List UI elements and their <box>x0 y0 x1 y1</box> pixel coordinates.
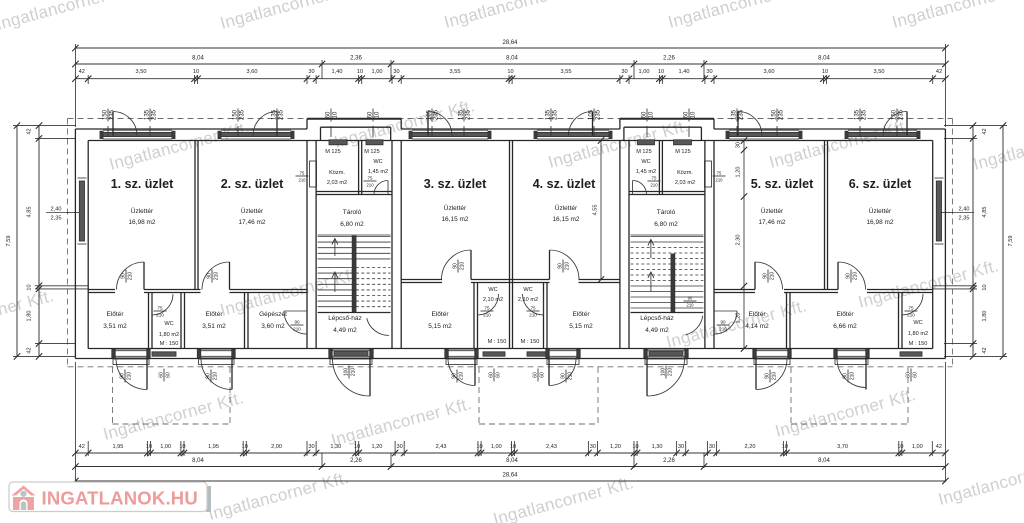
svg-text:10: 10 <box>897 444 903 450</box>
svg-text:210: 210 <box>460 262 466 271</box>
svg-text:30: 30 <box>308 444 314 450</box>
svg-text:150: 150 <box>891 109 897 120</box>
wall eloter1|wc1 <box>148 293 150 349</box>
svg-text:210: 210 <box>156 313 164 318</box>
svg-text:2,20: 2,20 <box>745 444 756 450</box>
svg-text:2,03 m2: 2,03 m2 <box>675 180 695 186</box>
svg-text:1,00: 1,00 <box>912 444 923 450</box>
svg-text:1,80 m2: 1,80 m2 <box>159 332 179 338</box>
svg-text:90: 90 <box>120 273 126 279</box>
left dimension witness lines <box>13 125 76 127</box>
interior vertical dim room5 <box>743 141 745 349</box>
svg-text:135: 135 <box>271 109 277 120</box>
svg-text:90: 90 <box>720 319 726 324</box>
svg-text:2,26: 2,26 <box>663 56 675 62</box>
wall eloter2|gepeszet <box>244 293 246 349</box>
svg-text:6,80 m2: 6,80 m2 <box>340 221 364 228</box>
staircase 1 treads <box>318 236 391 238</box>
svg-text:60: 60 <box>641 111 647 118</box>
svg-text:M 125: M 125 <box>636 149 652 155</box>
svg-text:17,46 m2: 17,46 m2 <box>758 219 785 226</box>
stair2 wc/kozm rooms <box>629 194 705 196</box>
svg-text:16,98 m2: 16,98 m2 <box>866 219 893 226</box>
door room1 to back (90/210) <box>143 262 145 290</box>
svg-text:M : 150: M : 150 <box>160 341 179 347</box>
bottom window wc1 (60/60) <box>152 352 176 356</box>
svg-text:30: 30 <box>396 444 402 450</box>
svg-text:105: 105 <box>426 109 432 120</box>
svg-text:30: 30 <box>709 444 715 450</box>
svg-text:3,60 m2: 3,60 m2 <box>261 323 285 330</box>
door wc1 (75/210) <box>152 294 173 315</box>
svg-text:10: 10 <box>507 69 513 75</box>
svg-text:4,85: 4,85 <box>982 207 988 218</box>
svg-text:235: 235 <box>466 109 472 120</box>
door gepeszet to stair1 (90/210) <box>284 310 307 312</box>
svg-text:3,55: 3,55 <box>450 69 461 75</box>
svg-text:3,55: 3,55 <box>561 69 572 75</box>
svg-text:8,04: 8,04 <box>506 56 518 62</box>
right dimension line 7,59 <box>1002 126 1004 357</box>
svg-text:7,59: 7,59 <box>6 236 12 247</box>
svg-text:1,20: 1,20 <box>610 444 621 450</box>
roof eaves dashed outline <box>68 118 953 120</box>
wall wc1|eloter2 <box>180 293 182 349</box>
svg-text:7,59: 7,59 <box>1008 236 1014 247</box>
right wall lines <box>944 129 946 359</box>
svg-text:6,66 m2: 6,66 m2 <box>833 323 857 330</box>
svg-text:10: 10 <box>691 111 697 118</box>
svg-text:75: 75 <box>652 175 657 180</box>
svg-text:100: 100 <box>343 368 349 377</box>
svg-text:1,00: 1,00 <box>372 69 383 75</box>
svg-text:90: 90 <box>845 273 851 279</box>
top facade windows <box>103 132 172 136</box>
svg-text:210: 210 <box>668 368 674 377</box>
svg-text:210: 210 <box>459 372 465 381</box>
svg-text:1,80 m2: 1,80 m2 <box>908 331 928 337</box>
left wall window <box>79 181 84 241</box>
svg-text:210: 210 <box>650 183 658 188</box>
svg-text:235: 235 <box>596 109 602 120</box>
svg-text:10: 10 <box>333 111 339 118</box>
logo house icon <box>12 486 36 511</box>
svg-text:3,51 m2: 3,51 m2 <box>103 323 127 330</box>
svg-text:Közm.: Közm. <box>329 170 345 176</box>
facade door arc room 5 <box>737 112 739 136</box>
door inside stair1 hall <box>366 312 389 314</box>
svg-text:210: 210 <box>770 272 776 281</box>
svg-text:1,45 m2: 1,45 m2 <box>636 169 656 175</box>
svg-text:Üzlettér: Üzlettér <box>869 207 892 215</box>
wall wc4|eloter4 <box>543 283 545 349</box>
svg-text:Előtér: Előtér <box>837 311 855 318</box>
svg-text:235: 235 <box>152 109 158 120</box>
svg-text:2,26: 2,26 <box>663 458 675 464</box>
svg-text:Előtér: Előtér <box>206 311 224 318</box>
svg-text:1,20: 1,20 <box>736 167 742 178</box>
svg-text:10: 10 <box>27 284 33 290</box>
svg-text:75: 75 <box>530 305 536 310</box>
svg-text:210: 210 <box>214 272 220 281</box>
svg-text:10: 10 <box>354 444 360 450</box>
svg-text:Üzlettér: Üzlettér <box>761 207 784 215</box>
svg-text:42: 42 <box>982 128 988 134</box>
svg-text:5,15 m2: 5,15 m2 <box>569 323 593 330</box>
facade door arc room 4 <box>592 112 594 136</box>
svg-text:210: 210 <box>687 303 695 308</box>
svg-text:4,14 m2: 4,14 m2 <box>745 323 769 330</box>
svg-text:135: 135 <box>144 109 150 120</box>
svg-text:WC: WC <box>488 287 497 293</box>
svg-text:10: 10 <box>242 444 248 450</box>
facade door arc room 6 <box>906 112 908 136</box>
terrace dashed outline right <box>790 367 792 424</box>
svg-text:10: 10 <box>982 284 988 290</box>
svg-text:210: 210 <box>853 272 859 281</box>
svg-text:M : 150: M : 150 <box>521 339 540 345</box>
svg-text:235: 235 <box>279 109 285 120</box>
top wall outer line <box>75 128 307 130</box>
svg-text:10: 10 <box>193 69 199 75</box>
right dimension chain 42/4,85/10/1,80/42 <box>972 126 974 357</box>
svg-text:10: 10 <box>357 69 363 75</box>
svg-text:1,30: 1,30 <box>330 444 341 450</box>
svg-text:135: 135 <box>731 109 737 120</box>
svg-text:6. sz. üzlet: 6. sz. üzlet <box>849 177 912 191</box>
svg-text:42: 42 <box>936 444 942 450</box>
svg-text:105: 105 <box>588 109 594 120</box>
svg-text:210: 210 <box>127 372 133 381</box>
svg-text:75: 75 <box>717 170 722 175</box>
facade door arc room 3 <box>427 112 429 136</box>
back partition rooms 5-6 <box>714 289 755 291</box>
svg-text:235: 235 <box>110 109 116 120</box>
svg-text:3,51 m2: 3,51 m2 <box>202 323 226 330</box>
bottom dimension row 2 <box>75 466 945 468</box>
left dimension chain 42/4,85/10/1,80/42 <box>38 126 40 357</box>
svg-text:42: 42 <box>79 69 85 75</box>
svg-text:10: 10 <box>510 444 516 450</box>
door wc4 (75/210) <box>523 294 544 315</box>
svg-text:10: 10 <box>782 444 788 450</box>
svg-text:1,95: 1,95 <box>208 444 219 450</box>
bottom wall outer line <box>75 358 945 360</box>
svg-text:1. sz. üzlet: 1. sz. üzlet <box>111 177 174 191</box>
svg-text:210: 210 <box>128 272 134 281</box>
left dimension line 7,59 <box>16 126 18 357</box>
svg-text:16,15 m2: 16,15 m2 <box>552 216 579 223</box>
svg-text:30: 30 <box>736 142 742 148</box>
svg-text:90: 90 <box>205 373 211 379</box>
svg-text:10: 10 <box>649 111 655 118</box>
svg-text:90: 90 <box>557 263 563 269</box>
bottom window wc4 (60/60) <box>527 352 549 356</box>
svg-text:235: 235 <box>862 109 868 120</box>
svg-text:30: 30 <box>308 69 314 75</box>
svg-text:210: 210 <box>366 183 374 188</box>
svg-text:1,00: 1,00 <box>160 444 171 450</box>
bottom dimension witness lines <box>74 362 76 482</box>
svg-text:1,00: 1,00 <box>639 69 650 75</box>
stair2 shaft niche <box>705 161 712 187</box>
right dimension witness lines <box>944 125 1007 127</box>
svg-text:1,40: 1,40 <box>332 69 343 75</box>
svg-text:210: 210 <box>299 178 307 183</box>
svg-text:2,43: 2,43 <box>546 444 557 450</box>
door room2 to back (90/210) <box>229 262 231 290</box>
svg-text:1,80: 1,80 <box>982 311 988 322</box>
svg-text:M : 150: M : 150 <box>488 339 507 345</box>
svg-text:2,35: 2,35 <box>959 216 970 222</box>
svg-text:Tároló: Tároló <box>657 209 676 216</box>
facade door arc room 1 <box>112 112 114 136</box>
svg-text:210: 210 <box>716 178 724 183</box>
svg-text:WC: WC <box>913 320 922 326</box>
staircase 2 treads <box>631 234 704 236</box>
svg-text:3,60: 3,60 <box>764 69 775 75</box>
svg-text:235: 235 <box>899 109 905 120</box>
svg-text:WC: WC <box>164 321 173 327</box>
svg-text:8,04: 8,04 <box>192 458 204 464</box>
svg-text:210: 210 <box>293 327 301 332</box>
terrace dashed outline center <box>478 367 480 424</box>
wall eloter3|wc3 <box>473 283 475 349</box>
svg-text:60: 60 <box>158 372 164 378</box>
partition rooms 1|2 <box>194 141 196 290</box>
svg-text:5,15 m2: 5,15 m2 <box>428 323 452 330</box>
svg-text:30: 30 <box>678 444 684 450</box>
bottom door room2 <box>201 349 233 358</box>
svg-text:Közm.: Közm. <box>677 170 693 176</box>
svg-text:60: 60 <box>166 372 172 378</box>
svg-text:1,00: 1,00 <box>491 444 502 450</box>
svg-text:3,50: 3,50 <box>874 69 885 75</box>
svg-text:Gépészet: Gépészet <box>259 311 287 318</box>
facade window dimension labels <box>102 109 115 122</box>
bottom dimension row 1 (28,64) <box>75 480 945 482</box>
svg-text:75: 75 <box>908 305 914 310</box>
door room6 to back (90/210) <box>837 262 839 290</box>
svg-text:10: 10 <box>632 444 638 450</box>
svg-text:1,20: 1,20 <box>371 444 382 450</box>
svg-text:3,60: 3,60 <box>247 69 258 75</box>
bottom dimension row 3 (detail chain) <box>75 452 945 454</box>
svg-text:10: 10 <box>822 69 828 75</box>
svg-text:1,45 m2: 1,45 m2 <box>368 169 388 175</box>
svg-text:2,30: 2,30 <box>736 235 742 246</box>
svg-text:Előtér: Előtér <box>107 311 125 318</box>
svg-text:90: 90 <box>688 295 693 300</box>
svg-text:17,46 m2: 17,46 m2 <box>238 219 265 226</box>
svg-text:210: 210 <box>719 327 727 332</box>
svg-text:210: 210 <box>213 372 219 381</box>
door wc6 (75/210) <box>902 294 923 315</box>
svg-text:42: 42 <box>982 347 988 353</box>
facade door arc room 2 <box>276 112 278 136</box>
svg-text:1,95: 1,95 <box>112 444 123 450</box>
wall back6|wc6 <box>898 293 900 349</box>
svg-text:10: 10 <box>375 111 381 118</box>
bottom window wc6 (60/60) <box>900 352 922 356</box>
svg-text:30: 30 <box>590 444 596 450</box>
back partition rooms 3-4 <box>401 279 442 281</box>
svg-text:135: 135 <box>545 109 551 120</box>
svg-text:16,15 m2: 16,15 m2 <box>441 216 468 223</box>
svg-text:8,04: 8,04 <box>192 56 204 62</box>
svg-text:235: 235 <box>434 109 440 120</box>
svg-text:90: 90 <box>206 273 212 279</box>
stair core vent windows <box>329 140 347 145</box>
svg-text:WC: WC <box>641 159 650 165</box>
terrace dashed outline left <box>112 367 114 424</box>
top dimension row 3 (detail chain) <box>75 78 945 80</box>
svg-text:1,30: 1,30 <box>652 444 663 450</box>
svg-text:135: 135 <box>854 109 860 120</box>
svg-text:2,10 m2: 2,10 m2 <box>518 297 538 303</box>
svg-text:2,43: 2,43 <box>436 444 447 450</box>
svg-text:2,35: 2,35 <box>51 216 62 222</box>
partition rooms 3|4 <box>509 141 511 349</box>
ingatlanok.hu logo box <box>206 486 211 512</box>
svg-text:28,64: 28,64 <box>502 473 518 479</box>
svg-text:3. sz. üzlet: 3. sz. üzlet <box>424 177 487 191</box>
svg-text:10: 10 <box>476 444 482 450</box>
top dimension row 1 (28,64) <box>75 47 945 49</box>
svg-text:90: 90 <box>451 373 457 379</box>
door room5 to back (90/210) <box>754 262 756 290</box>
svg-text:60: 60 <box>532 372 538 378</box>
svg-text:60: 60 <box>905 372 911 378</box>
svg-text:210: 210 <box>351 368 357 377</box>
door wc3 (75/210) <box>478 294 499 315</box>
svg-text:235: 235 <box>553 109 559 120</box>
svg-text:6,80 m2: 6,80 m2 <box>654 221 678 228</box>
svg-text:60: 60 <box>325 111 331 118</box>
svg-text:2. sz. üzlet: 2. sz. üzlet <box>221 177 284 191</box>
top wall inner line <box>88 140 933 142</box>
svg-text:75: 75 <box>300 170 305 175</box>
bottom door room4 <box>549 349 577 358</box>
svg-text:2,40: 2,40 <box>51 207 62 213</box>
svg-text:INGATLANOK.HU: INGATLANOK.HU <box>42 488 198 509</box>
door inside stair2 hall <box>680 312 703 314</box>
svg-text:150: 150 <box>771 109 777 120</box>
svg-text:90: 90 <box>119 373 125 379</box>
svg-text:4,55: 4,55 <box>593 205 599 216</box>
svg-text:1,40: 1,40 <box>679 69 690 75</box>
svg-text:60: 60 <box>540 372 546 378</box>
svg-text:2,26: 2,26 <box>350 458 362 464</box>
svg-text:210: 210 <box>483 313 491 318</box>
svg-text:42: 42 <box>79 444 85 450</box>
svg-text:90: 90 <box>762 273 768 279</box>
svg-text:100: 100 <box>660 368 666 377</box>
svg-text:4,85: 4,85 <box>27 207 33 218</box>
bottom door room6 <box>837 349 866 358</box>
interior vertical dim room4 (4,55) <box>600 141 602 280</box>
svg-text:WC: WC <box>373 159 382 165</box>
svg-text:1,80: 1,80 <box>27 311 33 322</box>
svg-text:Üzlettér: Üzlettér <box>555 204 578 212</box>
svg-text:3,70: 3,70 <box>837 444 848 450</box>
svg-text:8,04: 8,04 <box>818 56 830 62</box>
svg-text:8,04: 8,04 <box>506 458 518 464</box>
svg-text:210: 210 <box>565 262 571 271</box>
back partition rooms 1-2 <box>88 289 115 291</box>
svg-text:Üzlettér: Üzlettér <box>241 207 264 215</box>
bottom door room5 <box>756 349 788 358</box>
svg-text:M 125: M 125 <box>364 149 380 155</box>
svg-text:2,03 m2: 2,03 m2 <box>327 180 347 186</box>
svg-text:WC: WC <box>523 287 532 293</box>
svg-text:Lépcső-ház: Lépcső-ház <box>640 315 674 322</box>
svg-text:28,64: 28,64 <box>502 40 518 46</box>
svg-text:210: 210 <box>529 313 537 318</box>
stair core 2 protruding front wall <box>620 118 714 120</box>
svg-text:42: 42 <box>936 69 942 75</box>
svg-text:4,49 m2: 4,49 m2 <box>333 327 357 334</box>
left wall lines <box>74 129 76 359</box>
svg-text:90: 90 <box>764 373 770 379</box>
stair2 entry door (100/210) <box>647 349 685 358</box>
svg-text:90: 90 <box>452 263 458 269</box>
svg-text:8,04: 8,04 <box>818 458 830 464</box>
top dimension row 2 (8,04 / 2,36 ...) <box>75 63 945 65</box>
bottom door room1 <box>115 349 147 358</box>
svg-text:Előtér: Előtér <box>432 311 450 318</box>
svg-text:2,36: 2,36 <box>350 56 362 62</box>
svg-text:30: 30 <box>393 69 399 75</box>
wall eloter5|room6 back <box>786 293 788 349</box>
svg-text:210: 210 <box>568 372 574 381</box>
svg-text:4. sz. üzlet: 4. sz. üzlet <box>533 177 596 191</box>
svg-text:2,00: 2,00 <box>271 444 282 450</box>
svg-text:10: 10 <box>658 69 664 75</box>
svg-text:210: 210 <box>907 313 915 318</box>
svg-text:M 125: M 125 <box>675 149 691 155</box>
bottom wall inner line <box>88 348 933 350</box>
svg-text:135: 135 <box>458 109 464 120</box>
svg-text:60: 60 <box>367 111 373 118</box>
svg-text:2,40: 2,40 <box>959 207 970 213</box>
svg-text:2,10 m2: 2,10 m2 <box>483 297 503 303</box>
svg-text:75: 75 <box>368 175 373 180</box>
svg-text:150: 150 <box>102 109 108 120</box>
stair1 kozm/wc rooms <box>316 194 392 196</box>
svg-text:Tároló: Tároló <box>343 209 362 216</box>
svg-text:M : 150: M : 150 <box>909 341 928 347</box>
svg-text:M 125: M 125 <box>325 149 341 155</box>
partition rooms 5|6 <box>824 141 826 290</box>
svg-text:90: 90 <box>560 373 566 379</box>
svg-text:90: 90 <box>842 373 848 379</box>
stair1 entry door (100/210) <box>332 349 370 358</box>
svg-text:3,50: 3,50 <box>136 69 147 75</box>
svg-text:235: 235 <box>779 109 785 120</box>
bottom door room3 <box>448 349 475 358</box>
stair core 1 protruding front wall <box>307 118 401 120</box>
svg-text:1,20: 1,20 <box>736 313 742 324</box>
svg-text:5. sz. üzlet: 5. sz. üzlet <box>751 177 814 191</box>
svg-text:10: 10 <box>179 444 185 450</box>
svg-text:Üzlettér: Üzlettér <box>131 207 154 215</box>
svg-text:75: 75 <box>157 305 163 310</box>
svg-text:42: 42 <box>27 347 33 353</box>
svg-text:60: 60 <box>488 372 494 378</box>
svg-text:150: 150 <box>232 109 238 120</box>
svg-text:90: 90 <box>294 319 300 324</box>
